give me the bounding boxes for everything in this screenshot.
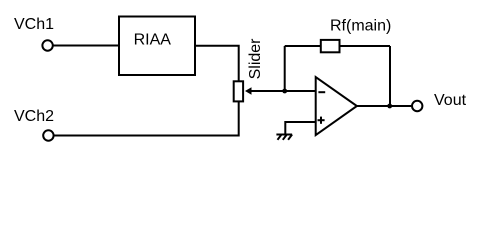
svg-text:VCh1: VCh1 <box>14 16 54 33</box>
svg-text:Slider: Slider <box>247 38 264 80</box>
svg-text:VCh2: VCh2 <box>14 108 54 125</box>
svg-text:RIAA: RIAA <box>134 32 172 49</box>
svg-text:Vout: Vout <box>434 92 467 109</box>
svg-text:Rf(main): Rf(main) <box>330 18 391 35</box>
